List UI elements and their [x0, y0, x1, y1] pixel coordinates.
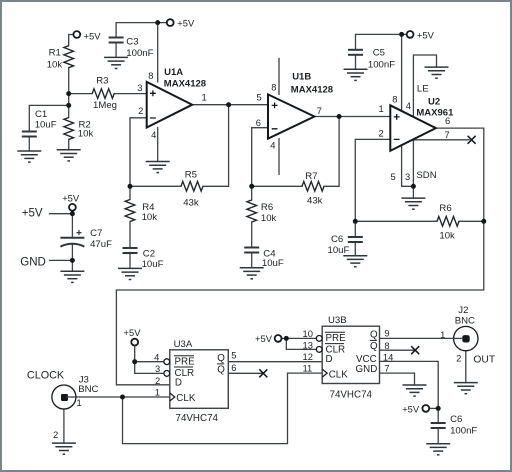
- wire J3 pin 1 to U3A CLK: [64, 396, 170, 398]
- svg-text:100nF: 100nF: [126, 48, 153, 59]
- resistor R4: [125, 200, 135, 222]
- ground U1A pin 4: [146, 162, 170, 173]
- svg-text:+5V: +5V: [402, 404, 420, 415]
- capacitor C6 mid: [348, 237, 363, 242]
- wire J2 pin 1 over ring: [452, 337, 463, 339]
- connector J3 BNC: [52, 385, 76, 409]
- svg-text:U3A: U3A: [174, 339, 193, 350]
- svg-text:C6: C6: [450, 414, 462, 425]
- no-connect X U3A pin 6: [259, 369, 267, 377]
- svg-text:8: 8: [148, 70, 153, 81]
- wire U1A output pin 1 to U1B pin 5: [192, 104, 268, 106]
- svg-text:11: 11: [303, 363, 313, 374]
- svg-text:Q: Q: [217, 364, 225, 375]
- svg-text:10: 10: [303, 328, 313, 339]
- svg-text:R5: R5: [185, 170, 197, 181]
- ground U2 SDN: [401, 198, 425, 209]
- wire U2 pin 2 to feedback node: [355, 139, 390, 221]
- svg-text:PRE: PRE: [175, 357, 196, 368]
- svg-text:2: 2: [379, 128, 384, 139]
- wire U2 pin 3 SDN to ground: [412, 139, 414, 198]
- wire U3A +5V to CLR pin 3: [135, 362, 164, 374]
- svg-text:3: 3: [405, 171, 410, 182]
- capacitor C3: [109, 38, 124, 43]
- svg-text:U1B: U1B: [292, 71, 311, 82]
- +5V terminal C3 rail: [167, 19, 174, 26]
- wire node to R7 left: [252, 185, 302, 187]
- junction U2 pin 3 5: [411, 184, 416, 189]
- wire J3 pin 2 to ground: [63, 409, 65, 443]
- svg-text:5: 5: [231, 350, 236, 361]
- wire U3B GND pin 7 to ground: [379, 373, 414, 385]
- wire U1A pin 8: [157, 23, 159, 82]
- junction C7 +5V: [70, 211, 75, 216]
- op-amp U1B: [268, 94, 314, 138]
- capacitor C5: [348, 50, 363, 55]
- wire R6 top: [251, 186, 253, 200]
- resistor R3: [92, 89, 114, 99]
- +5V terminal R1: [73, 31, 80, 38]
- node A junction: [66, 91, 71, 96]
- flip-flop U3B box: [322, 326, 379, 383]
- svg-text:GND: GND: [356, 364, 378, 375]
- svg-text:1: 1: [379, 103, 384, 114]
- svg-text:5: 5: [391, 171, 396, 182]
- svg-text:Q: Q: [370, 330, 378, 341]
- svg-text:43k: 43k: [183, 197, 199, 208]
- resistor R6 right: [437, 217, 459, 227]
- svg-text:CLK: CLK: [329, 369, 349, 380]
- wire U3B +5V to PRE pin 10: [281, 337, 316, 339]
- svg-text:4: 4: [270, 139, 275, 150]
- svg-text:10uF: 10uF: [142, 259, 164, 270]
- wire C6 top: [354, 221, 356, 237]
- svg-text:13: 13: [303, 340, 313, 351]
- wire +5V rail to C5: [356, 34, 407, 49]
- U3A CLR bubble: [164, 371, 170, 377]
- wire +5V label to C7 node: [50, 213, 73, 215]
- wire C3 to ground: [115, 43, 117, 58]
- svg-text:10k: 10k: [78, 129, 94, 140]
- no-connect X U3B pin 8: [411, 346, 419, 354]
- svg-text:8: 8: [384, 340, 389, 351]
- svg-text:4: 4: [154, 352, 159, 363]
- wire R6 bottom to C4: [251, 222, 253, 248]
- wire U2 pin 7 stub: [412, 139, 469, 141]
- svg-text:7: 7: [445, 129, 450, 140]
- ground J2: [454, 383, 478, 394]
- U3B PRE bubble: [316, 336, 322, 342]
- svg-text:9: 9: [384, 328, 389, 339]
- svg-text:47uF: 47uF: [90, 239, 112, 250]
- +5V terminal C6 bottom right: [422, 405, 429, 412]
- svg-text:10k: 10k: [47, 60, 63, 71]
- +5V terminal U2 rail: [407, 31, 414, 38]
- svg-text:PRE: PRE: [326, 333, 347, 344]
- wire J3 pin 1 over ring: [66, 396, 77, 398]
- wire R6 right to output node: [459, 220, 484, 222]
- svg-text:74VHC74: 74VHC74: [176, 413, 219, 424]
- junction VCC C6 node: [436, 406, 441, 411]
- +5V terminal U3A: [131, 339, 138, 346]
- svg-text:+5V: +5V: [124, 327, 142, 338]
- wire U2 pin 8 to +5V rail: [401, 34, 403, 111]
- wire U3B +5V to CLR pin 13: [286, 338, 316, 349]
- wire R2 bottom to ground: [68, 140, 70, 150]
- svg-text:+5V: +5V: [255, 333, 273, 344]
- wire U3B Q pin 9 to J2 pin 1: [379, 337, 463, 339]
- svg-text:8: 8: [271, 82, 276, 93]
- svg-text:+5V: +5V: [62, 193, 80, 204]
- capacitor C1: [22, 132, 37, 137]
- svg-text:100nF: 100nF: [450, 426, 477, 437]
- junction U1A output: [226, 102, 231, 107]
- wire R4 top: [129, 186, 131, 199]
- svg-text:R6: R6: [261, 202, 273, 213]
- svg-text:1: 1: [77, 397, 82, 408]
- ground R2: [57, 150, 81, 161]
- resistor R2: [64, 118, 74, 140]
- junction R4 R5 node: [128, 184, 133, 189]
- comparator U2: [390, 105, 436, 151]
- wire C6 to ground: [437, 428, 439, 444]
- wire node to R5 left: [130, 185, 181, 187]
- svg-text:U3B: U3B: [328, 315, 347, 326]
- wire node B to R2 top: [68, 105, 70, 117]
- junction R6 C6 node: [353, 219, 358, 224]
- wire +5V rail to C3 and U1A pin 8: [116, 23, 167, 38]
- ground C1: [17, 151, 41, 162]
- ground U3B pin 7: [403, 385, 427, 396]
- svg-text:U2: U2: [428, 96, 440, 107]
- wire GND label to node: [50, 259, 73, 261]
- wire R1 top to +5V terminal: [69, 35, 74, 46]
- capacitor C6 bottom right: [431, 423, 446, 428]
- wire clock rail to U3B CLK pin 11: [123, 373, 323, 444]
- wire U1B pin 4: [278, 139, 280, 175]
- wire U1B pin 8: [278, 58, 280, 94]
- U3B CLK edge triangle: [322, 369, 327, 377]
- wire C1 to ground: [28, 137, 30, 152]
- wire U3A Qbar pin 6 stub: [228, 372, 261, 374]
- ground C2: [118, 268, 142, 279]
- svg-text:8: 8: [392, 94, 397, 105]
- svg-text:C6: C6: [331, 234, 343, 245]
- svg-text:R3: R3: [96, 76, 108, 87]
- wire U3B VCC pin 14 to +5V node and C6: [379, 361, 438, 423]
- svg-text:C7: C7: [90, 228, 102, 239]
- wire U2 output pin 6 down and feedback rail to U3A D: [116, 128, 483, 385]
- wire node A to node B: [68, 94, 70, 106]
- junction U3A +5V: [132, 359, 137, 364]
- svg-text:+5V: +5V: [84, 31, 102, 42]
- svg-text:D: D: [175, 378, 182, 389]
- svg-text:2: 2: [138, 105, 143, 116]
- svg-text:1: 1: [155, 387, 160, 398]
- wire U3A Q pin 5 to U3B D pin 12: [228, 361, 322, 363]
- svg-text:OUT: OUT: [473, 354, 495, 365]
- ground J3: [52, 443, 76, 454]
- svg-text:10uF: 10uF: [328, 245, 350, 256]
- wire U1B output pin 7 to U2 pin 1: [314, 116, 390, 118]
- ground C4: [240, 268, 264, 279]
- resistor R6 mid: [247, 200, 257, 222]
- svg-text:100nF: 100nF: [368, 60, 395, 71]
- wire U1B pin 6 to feedback node: [252, 128, 268, 187]
- +5V terminal C7: [69, 204, 76, 211]
- wire R3 right to U1A pin 3: [114, 93, 147, 95]
- svg-text:10k: 10k: [439, 230, 455, 241]
- op-amp U1A: [147, 82, 193, 128]
- wire R4 bottom to C2: [129, 222, 131, 249]
- svg-text:R7: R7: [305, 171, 317, 182]
- wire C5 to ground: [355, 55, 357, 70]
- svg-text:Q: Q: [370, 341, 378, 352]
- svg-text:3: 3: [137, 82, 142, 93]
- svg-text:MAX4128: MAX4128: [164, 79, 206, 90]
- svg-text:10k: 10k: [261, 213, 277, 224]
- svg-text:1: 1: [202, 91, 207, 102]
- junction clock node: [120, 395, 125, 400]
- junction C3 rail pin 8: [155, 20, 160, 25]
- svg-text:GND: GND: [20, 257, 46, 269]
- svg-text:Q: Q: [217, 353, 225, 364]
- capacitor C2: [123, 248, 138, 253]
- ground C6 mid: [343, 256, 367, 267]
- U3A PRE bubble: [164, 359, 170, 365]
- wire U3B Qbar pin 8 stub: [379, 349, 413, 351]
- +5V terminal U3B: [275, 335, 282, 342]
- svg-text:R6: R6: [439, 203, 451, 214]
- wire R5 right up to output node: [203, 105, 229, 187]
- resistor R1: [64, 46, 74, 68]
- wire C2 to ground: [129, 253, 131, 268]
- junction R6 R7 node: [249, 184, 254, 189]
- svg-text:10uF: 10uF: [262, 258, 284, 269]
- node B junction: [66, 103, 71, 108]
- svg-text:BNC: BNC: [78, 384, 98, 395]
- wire U2 pin 4 LE to ground: [413, 55, 436, 117]
- svg-text:10uF: 10uF: [35, 120, 57, 131]
- svg-text:C3: C3: [126, 37, 138, 48]
- svg-text:6: 6: [256, 117, 261, 128]
- svg-text:6: 6: [445, 115, 450, 126]
- svg-text:5: 5: [257, 91, 262, 102]
- svg-text:R1: R1: [49, 48, 61, 59]
- junction U2 output node: [481, 219, 486, 224]
- svg-text:CLK: CLK: [176, 393, 196, 404]
- svg-text:+5V: +5V: [22, 207, 43, 219]
- resistor R7: [302, 182, 324, 192]
- svg-text:7: 7: [384, 363, 389, 374]
- svg-text:3: 3: [155, 363, 160, 374]
- junction U2 pin 8 rail: [399, 32, 404, 37]
- wire node to R6 left: [355, 220, 437, 222]
- ground C6 bottom right: [426, 444, 450, 455]
- U3A CLK edge triangle: [170, 393, 175, 401]
- wire R1 bottom to node A: [68, 68, 70, 94]
- wire +5V terminal to VCC node: [429, 407, 438, 409]
- wire node A to R3 left: [69, 93, 93, 95]
- wire R7 right up to U1B output node: [324, 117, 339, 187]
- svg-text:+5V: +5V: [417, 30, 435, 41]
- svg-text:+5V: +5V: [177, 18, 195, 29]
- wire +5V terminal to C7: [71, 211, 73, 238]
- svg-text:2: 2: [155, 375, 160, 386]
- svg-text:C1: C1: [35, 109, 47, 120]
- ground C3: [104, 57, 128, 68]
- svg-text:D: D: [326, 354, 333, 365]
- svg-text:C5: C5: [373, 48, 385, 59]
- capacitor C4: [244, 248, 259, 253]
- resistor R5: [181, 182, 203, 192]
- wire U1A pin 4 to ground: [157, 128, 159, 162]
- svg-text:1Meg: 1Meg: [93, 100, 117, 111]
- wire J2 pin 2 to ground: [465, 351, 467, 383]
- junction U1B output: [337, 114, 342, 119]
- svg-text:12: 12: [303, 351, 313, 362]
- svg-text:74VHC74: 74VHC74: [330, 390, 373, 401]
- no-connect X U2 pin 7: [468, 136, 476, 144]
- svg-text:2: 2: [53, 429, 58, 440]
- svg-text:4: 4: [406, 100, 411, 111]
- svg-text:U1A: U1A: [164, 67, 183, 78]
- svg-text:SDN: SDN: [416, 170, 436, 181]
- junction C7 GND: [70, 258, 75, 263]
- svg-text:2: 2: [456, 353, 461, 364]
- svg-text:43k: 43k: [307, 196, 323, 207]
- wire C6 to ground: [354, 242, 356, 256]
- wire U2 pin 5 to pin 3 node: [402, 145, 414, 186]
- svg-text:LE: LE: [417, 83, 429, 94]
- capacitor C7 electrolytic: [60, 238, 84, 247]
- connector J2 BNC: [454, 326, 478, 350]
- ground C5: [344, 69, 368, 80]
- U3B CLR bubble: [316, 347, 322, 353]
- svg-text:BNC: BNC: [455, 315, 475, 326]
- wire node B to C1: [29, 105, 68, 131]
- C7 plus mark: [77, 230, 82, 235]
- svg-text:10k: 10k: [142, 212, 158, 223]
- svg-text:7: 7: [317, 105, 322, 116]
- svg-text:MAX4128: MAX4128: [291, 84, 333, 95]
- ground U2 LE: [425, 67, 449, 78]
- svg-text:1: 1: [440, 329, 445, 340]
- ground C7: [60, 271, 84, 282]
- flip-flop U3A box: [170, 350, 229, 409]
- svg-text:6: 6: [231, 362, 236, 373]
- wire U1A pin 2 to feedback node: [130, 118, 147, 187]
- svg-text:14: 14: [383, 352, 393, 363]
- svg-text:4: 4: [151, 129, 156, 140]
- wire C4 to ground: [251, 253, 253, 268]
- junction U3B +5V: [284, 336, 289, 341]
- svg-text:CLOCK: CLOCK: [27, 370, 65, 382]
- wire C7 to GND node: [71, 244, 73, 272]
- wire U3A +5V to PRE pin 4: [135, 345, 164, 361]
